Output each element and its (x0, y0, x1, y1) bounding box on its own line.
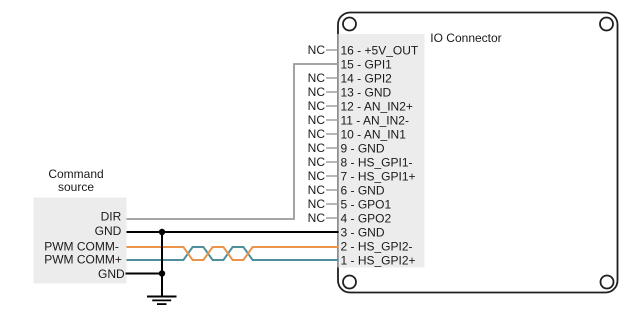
svg-text:NC: NC (308, 169, 326, 183)
svg-text:source: source (58, 180, 94, 194)
svg-text:NC: NC (308, 127, 326, 141)
svg-text:NC: NC (308, 113, 326, 127)
svg-text:5 - GPO1: 5 - GPO1 (341, 198, 392, 212)
NC stub pin 8 (326, 161, 339, 163)
NC stub pin 16 (326, 49, 339, 51)
NC stub pin 9 (326, 147, 339, 149)
mounting hole bottom-right (601, 276, 614, 289)
GND wire (black) to pin 3 (127, 231, 339, 233)
svg-text:4 - GPO2: 4 - GPO2 (341, 212, 392, 226)
svg-text:NC: NC (308, 99, 326, 113)
Command source box (34, 198, 127, 284)
svg-text:9 - GND: 9 - GND (341, 142, 385, 156)
svg-text:12 - AN_IN2+: 12 - AN_IN2+ (341, 100, 413, 114)
junction dot upper (159, 229, 165, 235)
svg-text:16 - +5V_OUT: 16 - +5V_OUT (341, 44, 419, 58)
svg-text:13 - GND: 13 - GND (341, 86, 392, 100)
junction dot lower (159, 270, 165, 276)
svg-text:Command: Command (48, 167, 103, 181)
svg-text:7 - HS_GPI1+: 7 - HS_GPI1+ (341, 170, 416, 184)
svg-text:NC: NC (308, 43, 326, 57)
svg-text:NC: NC (308, 155, 326, 169)
svg-text:NC: NC (308, 85, 326, 99)
svg-text:GND: GND (98, 267, 125, 281)
NC stub pin 14 (326, 77, 339, 79)
IO connector body outline (338, 13, 618, 293)
svg-text:NC: NC (308, 71, 326, 85)
NC stub pin 4 (326, 217, 339, 219)
svg-text:PWM COMM+: PWM COMM+ (44, 253, 122, 267)
PWM COMM+ wire (teal) to pin 1, twisted pair (127, 247, 339, 260)
NC stub pin 10 (326, 133, 339, 135)
svg-text:DIR: DIR (101, 210, 122, 224)
mounting hole bottom-left (343, 276, 356, 289)
NC stub pin 7 (326, 175, 339, 177)
svg-text:GND: GND (95, 224, 122, 238)
NC stub pin 13 (326, 91, 339, 93)
ground symbol (147, 297, 177, 305)
NC stub pin 5 (326, 203, 339, 205)
mounting hole top-left (343, 18, 356, 31)
svg-text:6 - GND: 6 - GND (341, 184, 385, 198)
GND vertical wire to ground (161, 232, 163, 297)
svg-text:NC: NC (308, 211, 326, 225)
svg-text:NC: NC (308, 141, 326, 155)
PWM COMM- wire (orange) to pin 2, twisted pair (127, 247, 339, 260)
svg-text:1 - HS_GPI2+: 1 - HS_GPI2+ (341, 254, 416, 268)
svg-text:8 - HS_GPI1-: 8 - HS_GPI1- (341, 156, 413, 170)
IO connector pin strip (338, 34, 425, 268)
svg-text:11 - AN_IN2-: 11 - AN_IN2- (341, 114, 409, 128)
svg-text:NC: NC (308, 183, 326, 197)
pin strip left edge (337, 34, 339, 268)
mounting hole top-right (600, 18, 613, 31)
svg-text:2 - HS_GPI2-: 2 - HS_GPI2- (341, 240, 413, 254)
svg-text:PWM COMM-: PWM COMM- (44, 240, 119, 254)
svg-text:IO Connector: IO Connector (430, 31, 501, 45)
svg-text:14 - GPI2: 14 - GPI2 (341, 72, 393, 86)
NC stub pin 6 (326, 189, 339, 191)
GND lower wire (126, 273, 163, 275)
svg-text:3 - GND: 3 - GND (341, 226, 385, 240)
svg-text:NC: NC (308, 197, 326, 211)
svg-text:15 - GPI1: 15 - GPI1 (341, 58, 393, 72)
svg-text:10 - AN_IN1: 10 - AN_IN1 (341, 128, 407, 142)
NC stub pin 12 (326, 105, 339, 107)
DIR wire (gray) to pin 15 (127, 64, 339, 219)
NC stub pin 11 (326, 119, 339, 121)
